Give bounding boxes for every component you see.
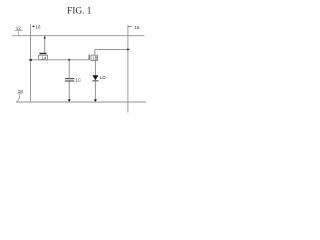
svg-text:1B: 1B [92, 56, 97, 61]
svg-text:16: 16 [36, 25, 42, 30]
svg-text:12: 12 [16, 25, 22, 30]
svg-text:LD: LD [100, 75, 107, 80]
svg-text:1C: 1C [75, 78, 82, 83]
svg-text:FIG. 1: FIG. 1 [67, 6, 92, 16]
svg-text:16: 16 [135, 25, 141, 30]
svg-text:18: 18 [18, 89, 24, 94]
